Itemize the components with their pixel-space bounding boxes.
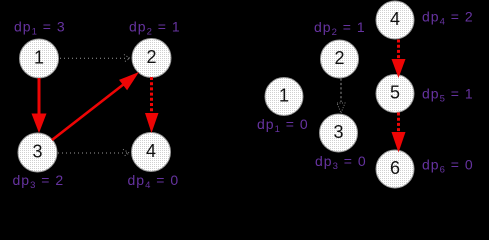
svg-text:1: 1 (279, 86, 289, 106)
svg-text:3: 3 (32, 142, 42, 162)
svg-text:2: 2 (334, 48, 344, 68)
svg-text:3: 3 (333, 122, 343, 142)
svg-text:2: 2 (146, 47, 156, 67)
svg-text:4: 4 (146, 141, 156, 161)
svg-text:6: 6 (390, 158, 400, 178)
svg-text:1: 1 (34, 48, 44, 68)
svg-text:5: 5 (390, 83, 400, 103)
svg-text:4: 4 (390, 9, 400, 29)
